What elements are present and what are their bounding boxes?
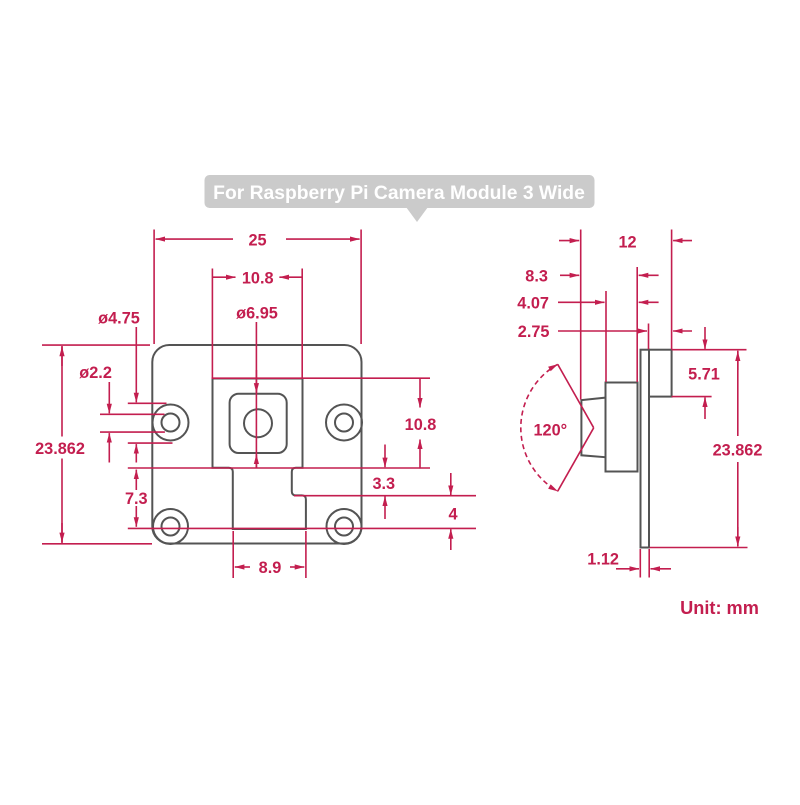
side ext barrel back [636,267,638,382]
dim 10.8 left arrow [212,276,235,278]
ext 8.9 left [232,531,234,578]
red dimension graphics [42,230,748,579]
side ext pcb back [648,324,650,350]
dim 10.8 right arrow [279,276,302,278]
svg-text:2.75: 2.75 [518,323,550,341]
leader 2.2 lower arrow [108,433,110,462]
board bottom ext left [42,543,152,545]
side ext lens front [580,230,582,400]
dim 25 right arrow [286,238,360,240]
tab top ext line [128,467,430,469]
dim 5.71 upper arrow [704,327,706,349]
ext 1.12 right [648,549,650,578]
svg-text:Unit: mm: Unit: mm [680,598,759,618]
front view: lens holder square [230,394,287,453]
svg-text:120°: 120° [533,422,567,440]
dim 23.862 left line lower [61,459,63,544]
sensor top ext line [212,377,431,379]
dim 1.12 right arrow [651,568,672,570]
notch ext line [294,495,476,497]
flange top ext right [672,349,747,351]
dim 12 right arrow [673,240,692,242]
svg-text:4.07: 4.07 [517,295,549,313]
side ext flange right [671,230,673,350]
leader 4.75 lower arrow [135,444,137,462]
hole outer top tangent line [128,402,167,404]
mounting hole top-right [326,405,362,441]
dim 23.862 left down arrow [61,523,63,542]
dim 5.71 lower arrow [704,397,706,419]
leader 6.95 lower arrow [255,455,257,468]
ext line 10.8 left [211,269,213,378]
leader 6.95 upper arrow [255,370,257,393]
side ext barrel front [605,291,607,382]
svg-text:25: 25 [248,232,266,250]
svg-text:1.12: 1.12 [587,551,619,569]
dim 2.75 arrow left [558,330,647,332]
side: top flange [649,350,672,397]
svg-text:3.3: 3.3 [372,475,395,493]
leader 2.2 upper arrow [108,382,110,413]
dim 12 left arrow [559,240,579,242]
dim 3.3 upper arrow [384,445,386,468]
dim 4.07 arrow left [558,301,605,303]
ext 8.9 right [305,531,307,578]
dim 4.07 arrow right [639,301,659,303]
svg-text:4: 4 [448,506,457,524]
side: pcb [641,350,650,548]
svg-text:23.862: 23.862 [713,442,763,460]
board top ext left [42,344,150,346]
svg-text:7.3: 7.3 [125,490,148,508]
dim 23.862 right down arrow [737,527,739,546]
dim 23.862 right line lower [737,462,739,547]
dim 23.862 right up arrow [737,352,739,371]
dim 4 lower arrow [450,529,452,550]
side: lens front cone [581,398,605,458]
dim 23.862 left line upper [61,346,63,437]
svg-text:8.3: 8.3 [525,268,548,286]
dim 3.3 lower arrow [384,497,386,520]
front view: lens hole [244,409,272,437]
svg-text:ø2.2: ø2.2 [79,364,112,382]
title banner [205,175,595,222]
front view: sensor housing and ribbon tab [213,379,306,530]
leader 6.95 [255,322,257,468]
dim 8.3 arrow left [560,274,579,276]
hole outer bottom tangent line [128,442,173,444]
dim 10.8 vertical upper arrow [419,378,421,407]
mounting hole bottom-left [153,509,188,544]
svg-text:10.8: 10.8 [242,270,274,288]
hole inner top tangent line [100,413,165,415]
mounting hole top-left [153,405,189,441]
dim 7.3 up arrow [135,470,137,490]
ext line 10.8 right [301,269,303,378]
side view outlines [581,350,671,548]
dim 23.862 left up arrow [61,347,63,366]
svg-text:12: 12 [618,234,636,252]
dim 8.9 left arrow [235,566,250,568]
ext 1.12 left [639,549,641,578]
fov upper line [558,364,594,428]
dim 8.3 arrow right [639,274,659,276]
side: lens barrel [606,383,638,472]
leader 4.75 upper arrow [135,327,137,402]
svg-text:10.8: 10.8 [405,416,437,434]
dim 7.3 down arrow [135,506,137,527]
svg-text:For Raspberry Pi Camera Module: For Raspberry Pi Camera Module 3 Wide [213,183,585,204]
ext line 25 right [360,230,362,345]
fov lower line [558,428,594,491]
dim 8.9 right arrow [290,566,304,568]
dim 25 left arrow [156,238,233,240]
svg-text:8.9: 8.9 [259,559,282,577]
ext line 25 left [153,230,155,345]
dim 1.12 left arrow [616,568,639,570]
hole inner bottom tangent line [100,431,165,433]
svg-text:5.71: 5.71 [688,366,720,384]
flange bottom ext [672,396,712,398]
pcb bottom ext right [650,547,748,549]
mounting hole bottom-right [327,509,362,544]
svg-text:ø4.75: ø4.75 [98,310,140,328]
dim 2.75 arrow right [673,330,692,332]
front view: board outline [152,345,362,544]
dim 23.862 right line upper [737,351,739,436]
hole centerline bottom [128,527,476,529]
svg-text:23.862: 23.862 [35,440,85,458]
dim 10.8 vertical lower arrow [419,440,421,469]
dim 4 upper arrow [450,473,452,495]
fov dashed arc [521,364,558,491]
svg-text:ø6.95: ø6.95 [236,305,278,323]
